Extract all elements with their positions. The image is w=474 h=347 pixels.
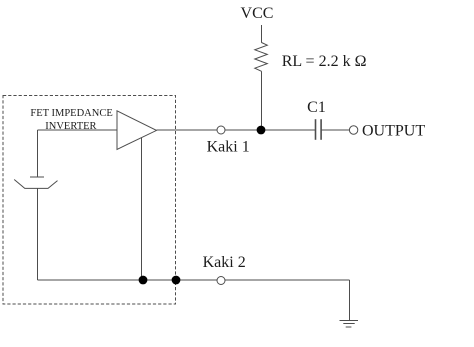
resistor RL	[255, 43, 267, 72]
wire resistor to node Kaki1	[261, 71, 263, 130]
wire symbol to bottom rail	[37, 188, 39, 280]
feedback wire from triangle	[141, 138, 143, 280]
junction dot feedback	[139, 276, 148, 285]
FET source symbol top bar	[30, 176, 44, 178]
svg-text:RL = 2.2 k Ω: RL = 2.2 k Ω	[282, 53, 367, 70]
svg-text:Kaki 2: Kaki 2	[203, 254, 246, 271]
wire C1 to OUTPUT terminal	[321, 129, 349, 131]
dashed box FET impedance inverter	[3, 96, 176, 305]
terminal OUTPUT (open circle)	[349, 126, 357, 134]
FET source symbol bottom curved plate	[14, 180, 57, 189]
junction node (filled dot)	[257, 126, 266, 135]
capacitor C1 left plate	[315, 119, 317, 140]
bottom rail wire left segment	[38, 279, 218, 281]
wire down to ground	[349, 280, 351, 320]
bottom rail wire right segment	[225, 279, 350, 281]
wire gate horizontal into triangle	[38, 129, 118, 131]
svg-text:VCC: VCC	[241, 5, 274, 22]
wire Kaki1 terminal to junction	[225, 129, 315, 131]
capacitor C1 right plate	[320, 119, 322, 140]
terminal Kaki 1 (open circle)	[217, 126, 225, 134]
terminal Kaki 2 (open circle)	[217, 277, 225, 285]
svg-text:OUTPUT: OUTPUT	[362, 123, 425, 140]
op-amp buffer triangle	[117, 111, 157, 150]
wire triangle output to Kaki1 terminal	[157, 129, 218, 131]
wire gate vertical down	[37, 130, 39, 177]
svg-text:FET IMPEDANCE: FET IMPEDANCE	[30, 108, 112, 119]
junction dot box edge	[172, 276, 181, 285]
svg-text:C1: C1	[307, 99, 326, 116]
ground symbol	[340, 320, 359, 322]
svg-text:Kaki 1: Kaki 1	[207, 139, 250, 156]
wire VCC to resistor	[261, 25, 263, 43]
